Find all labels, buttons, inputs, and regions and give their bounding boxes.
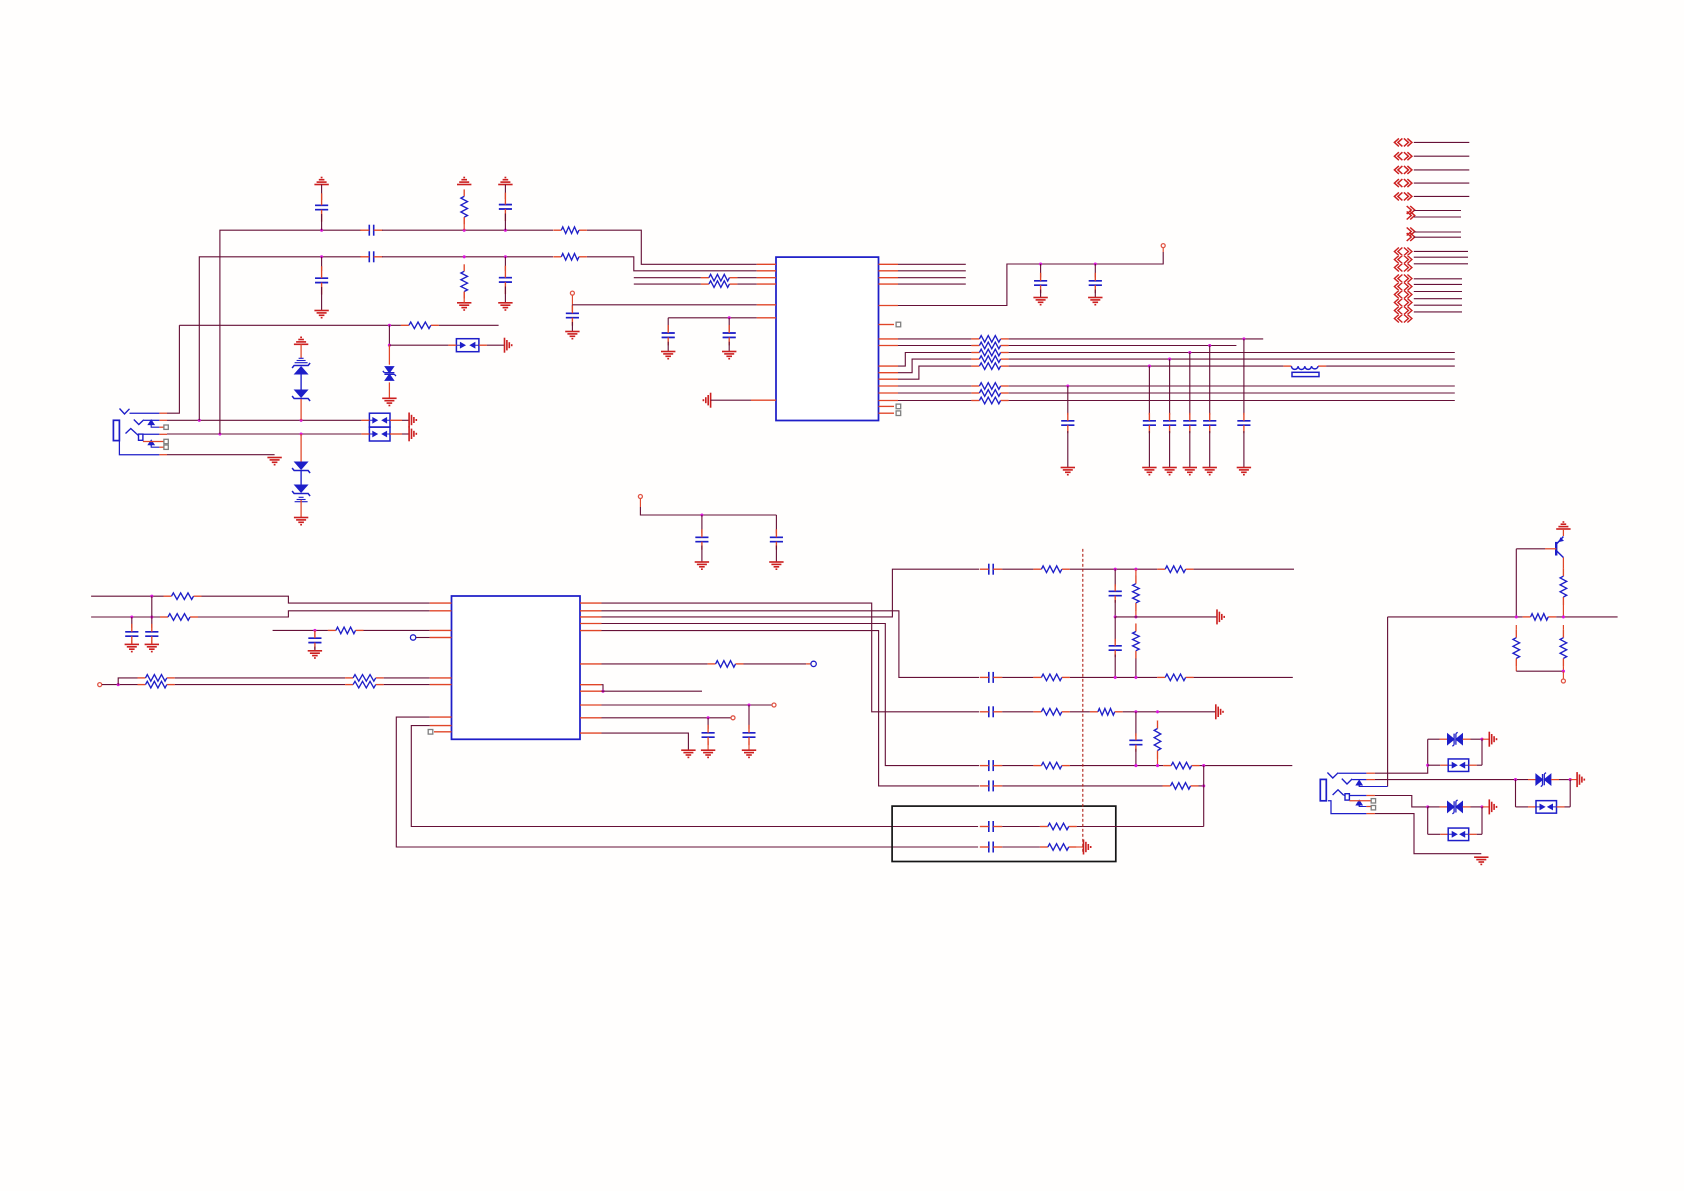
junction we (117, 683, 120, 686)
wire wa-wb riser (151, 596, 153, 617)
pin U2 l9 (434, 731, 452, 733)
wire C18 stub (701, 515, 703, 534)
wire C6 stub2 (504, 287, 506, 303)
capacitor C26 (1109, 584, 1122, 602)
pin D6 l (1528, 779, 1536, 781)
chassis ground G28 (1489, 732, 1496, 747)
junction w2-c (504, 255, 507, 258)
wire U2 gnd (602, 733, 689, 750)
junction j2tip (1426, 764, 1429, 767)
wire C10 stub (1040, 264, 1042, 278)
wire bus5 c (1326, 365, 1455, 367)
junction vp3 (700, 513, 703, 516)
wire F5 b (1199, 785, 1204, 787)
junction q1-b (1562, 615, 1565, 618)
pin U1 b6 (879, 385, 899, 387)
wire B2 b (1002, 846, 1040, 848)
wire C13 drop (1148, 366, 1150, 415)
resistor R22 (345, 681, 384, 688)
wire R3 stub (463, 217, 465, 230)
transistor Q1 (1556, 537, 1564, 558)
wire fb4 riser l (1427, 807, 1429, 834)
wire J2 sleeve net (1375, 796, 1428, 807)
resistor R18 (328, 627, 364, 634)
wire C9 stub (728, 318, 730, 331)
wire Q1 out b (1556, 616, 1617, 618)
capacitor C30 (1129, 733, 1142, 751)
pin U1 r4 (879, 283, 899, 285)
wire X9 stub 305.2 (1414, 304, 1462, 306)
junction vdd2 (707, 716, 710, 719)
wire vp3 rail (640, 507, 776, 515)
wire X8 stub 251.4 (1414, 250, 1468, 252)
connector X6b (1407, 212, 1415, 220)
junction j2s (1426, 805, 1429, 808)
capacitor C8 (662, 325, 675, 345)
pin U1 r8 (879, 412, 895, 414)
junction f2-b (1134, 676, 1137, 679)
wire G29 stub (1482, 806, 1489, 808)
resistor R12 (971, 363, 1008, 370)
junction w1-b (463, 229, 466, 232)
connector X8 (1394, 248, 1412, 272)
wire C11 stub (1094, 264, 1096, 278)
TVS diode D1 (292, 344, 310, 420)
pin U2 r7 (580, 684, 602, 686)
connector X5 (1394, 192, 1412, 200)
resistor R41 (1560, 630, 1567, 667)
wire F2 a (1002, 676, 1033, 678)
wire bus1 b (1009, 338, 1264, 340)
wire C14 drop (1169, 359, 1171, 415)
wire bus1 a (898, 338, 971, 340)
wire U1 in6 (668, 317, 757, 319)
pin U1 b5 (879, 378, 899, 380)
connector X7a (1407, 228, 1415, 236)
chassis ground G29 (1489, 799, 1496, 814)
pin D6 r (1551, 779, 1570, 781)
wire X9 stub 311.9 (1414, 311, 1462, 313)
wire U2 aux3 (602, 690, 703, 692)
wire wd riser (118, 678, 137, 685)
resistor R7 (701, 281, 738, 288)
junction bus3 (1188, 351, 1191, 354)
wire Q1 base net (1516, 548, 1545, 550)
pin FB4 r (1469, 833, 1482, 835)
pin U2 r11 (580, 732, 602, 734)
pin U1 4 (757, 283, 776, 285)
connector J1 tip contact (120, 409, 130, 415)
pin VP2 stub (1162, 248, 1164, 252)
wire C7 stub2 (571, 322, 573, 332)
wire F4 b (1070, 765, 1163, 767)
capacitor C15 (1183, 413, 1196, 433)
wire U2 vdd2 (602, 717, 731, 719)
capacitor C6 (499, 266, 512, 294)
resistor R6 (701, 274, 738, 281)
wire C16 drop2 (1209, 431, 1211, 468)
wire bus3 b (1009, 352, 1455, 354)
pin D5 l (1428, 806, 1448, 808)
power port VP4 (98, 683, 102, 687)
wire C22 stub (314, 630, 316, 636)
pin U1 r5 (879, 305, 899, 307)
wire WB b (198, 611, 430, 617)
connector J2 body (1320, 779, 1326, 800)
ground G-C17 (1237, 468, 1251, 475)
wire bead row (389, 344, 448, 346)
connector J1 audio jack body (113, 420, 119, 440)
ground G18 (125, 644, 139, 651)
junction wc (313, 629, 316, 632)
junction w2-b (463, 255, 466, 258)
test point TP2 (896, 404, 901, 409)
capacitor C33 (980, 821, 1002, 832)
wire C3 stub (321, 185, 323, 201)
wire X4 stub (1414, 182, 1470, 184)
power flag VCC C5 (498, 178, 512, 185)
power flag VCC D1 (294, 337, 308, 344)
pin U2 l8 (430, 725, 452, 727)
wire C26 stub2 (1114, 600, 1116, 617)
ground G27 (1474, 857, 1488, 864)
wire R27 link (1135, 624, 1137, 678)
junction in6 (728, 316, 731, 319)
wire C27 stub2 (1114, 655, 1116, 678)
wire F3 feed (602, 603, 980, 712)
wire C12 drop2 (1067, 431, 1069, 468)
junction f2-a (1114, 676, 1117, 679)
wire bus7 b (1009, 392, 1455, 394)
pin U2 l4 (430, 637, 452, 639)
junction w1-c (504, 229, 507, 232)
wire tip net (167, 325, 179, 413)
connector J1 sleeve contact (126, 429, 143, 441)
wire F2 feed (602, 611, 980, 678)
junction m-b (1134, 615, 1137, 618)
resistor R32 (1154, 721, 1161, 759)
wire bus6 b (1009, 385, 1455, 387)
power flag VCC Q1 (1556, 522, 1570, 529)
pin FB5 l (1516, 806, 1537, 808)
wire X9 stub 284.4 (1414, 283, 1462, 285)
wire WE b (175, 684, 345, 686)
wire C15 drop2 (1189, 431, 1191, 468)
connector J2 tip contact (1327, 773, 1338, 779)
ferrite bead FB2 (456, 339, 479, 352)
junction f3-a (1134, 710, 1137, 713)
pin FB1 left (361, 420, 369, 434)
junction bus4 (1168, 358, 1171, 361)
wire J2 ring net (1375, 779, 1528, 781)
pin D5 r (1463, 806, 1482, 808)
connector J2 switch 2 pad (1371, 806, 1375, 810)
wire C4 stub (321, 257, 323, 271)
wire C6 stub (504, 257, 506, 271)
pin U2 r10 (580, 717, 602, 719)
wire C10 stub2 (1040, 290, 1042, 298)
wire Q1 out (1388, 616, 1523, 618)
pin NC1 (416, 637, 451, 639)
ground G7 (498, 303, 512, 310)
pin U2 r8 (580, 690, 602, 692)
capacitor C13 (1143, 413, 1156, 433)
wire X6 stub1 (1414, 210, 1461, 212)
wire F4 feed (602, 624, 980, 766)
wire Q1 e stub (1562, 529, 1564, 536)
junction f5 (1202, 784, 1205, 787)
ground G14 (1033, 298, 1047, 305)
junction sleeve-tvs (300, 432, 303, 435)
resistor R28 (1033, 674, 1069, 681)
junction sleeve-riser (218, 432, 221, 435)
pin U2 r3 (580, 616, 602, 618)
junction j2ring (1514, 778, 1517, 781)
wire ring net row (167, 419, 361, 421)
wire C19 stub2 (775, 546, 777, 563)
wire W2 seg c (587, 257, 757, 271)
wire fb5 riser r (1569, 780, 1571, 807)
junction w3-a (388, 324, 391, 327)
resistor R34 (1163, 762, 1199, 769)
chassis ground G25 (1216, 704, 1223, 719)
resistor R35 (1163, 783, 1199, 790)
wire C17 drop (1243, 339, 1245, 415)
chassis ground G2 (409, 413, 416, 428)
resistor R20 (345, 675, 384, 682)
wire R4 stub (463, 292, 465, 303)
wire C3 stub2 (321, 214, 323, 230)
wire U2 vdd1 (602, 704, 772, 706)
connector J2 switch 1 (1357, 781, 1388, 787)
resistor R26 (1133, 576, 1140, 611)
resistor R1 (553, 227, 587, 234)
wire J2 sleeve c (1349, 795, 1375, 797)
wire bus7 a (898, 392, 971, 394)
port NC2 (811, 661, 816, 666)
wire fb3 riser (1481, 739, 1483, 765)
junction vdd-b (1094, 262, 1097, 265)
resistor R15 (971, 397, 1008, 404)
pin U1 r6 (879, 324, 895, 326)
wire W1 seg c (587, 230, 757, 264)
wire C30 stub2 (1135, 749, 1137, 766)
wire WE a (102, 684, 138, 686)
inductor L1 (1283, 366, 1326, 376)
wire C15 drop (1189, 353, 1191, 415)
ground G20 (308, 651, 322, 658)
capacitor C9 (723, 325, 736, 345)
wire G30 stub (1570, 779, 1577, 781)
resistor R27 (1133, 624, 1140, 659)
test point TP1 (896, 322, 901, 327)
junction f1-a (1114, 568, 1117, 571)
pin D4 r (1463, 738, 1482, 740)
connector J1 switch 2 (149, 440, 165, 447)
capacitor C24 (702, 725, 715, 745)
wire R40 link (1515, 625, 1517, 671)
capacitor C2 (360, 251, 382, 262)
wire C16 drop (1209, 346, 1211, 415)
wire C23 stub (748, 705, 750, 729)
power port VP2 (1161, 244, 1165, 248)
junction wa (150, 595, 153, 598)
junction w2-a (320, 255, 323, 258)
connector J2 ring 2 stub (1349, 800, 1371, 802)
wire U1 agnd (711, 399, 751, 401)
wire F5 feed (602, 631, 980, 786)
wire C30 stub (1135, 712, 1137, 737)
connector J2 ring 2 pad (1371, 799, 1375, 803)
capacitor C31 (980, 760, 1002, 771)
wire WD c (384, 677, 430, 679)
wire J2 tip (1338, 772, 1375, 774)
IC U2 (452, 596, 581, 739)
wire F1 c (1194, 568, 1294, 570)
wire C13 drop2 (1148, 431, 1150, 468)
wire fb5 riser l (1515, 780, 1517, 807)
ground G22 (701, 750, 715, 757)
ground G21 (742, 750, 756, 757)
junction bus6 (1066, 384, 1069, 387)
resistor R14 (971, 390, 1008, 397)
junction f4-a (1134, 764, 1137, 767)
pin U2 l2 (430, 610, 452, 612)
pin Q1 base (1545, 548, 1556, 550)
pin U1 1 (757, 263, 776, 265)
wire bus8 b (1009, 400, 1455, 402)
wire J2 shield net (1375, 814, 1481, 854)
ground G-C16 (1203, 468, 1217, 475)
junction bead-row (388, 344, 391, 347)
wire X2 stub (1414, 155, 1470, 157)
wire C5 stub2 (504, 214, 506, 231)
wire bus2 a (898, 345, 971, 347)
pin FB3 l (1428, 764, 1449, 766)
pin FB1 right (390, 420, 409, 434)
capacitor C34 (980, 842, 1002, 853)
pin U1 3 (757, 277, 776, 279)
resistor R17 (160, 614, 198, 621)
wire X5 stub (1414, 195, 1470, 197)
pin U2 r9 (580, 704, 602, 706)
capacitor C11 (1089, 273, 1102, 293)
pin FB4 l (1428, 833, 1449, 835)
wire W2 seg b (382, 256, 553, 258)
junction d6 (1569, 778, 1572, 781)
wire VP7 stub (1562, 671, 1564, 679)
wire B1 c (1077, 826, 1204, 828)
wire F1 feed (602, 569, 980, 617)
resistor R8 (971, 336, 1008, 343)
pin U2 r4 (580, 623, 602, 625)
ground G1 (267, 458, 281, 465)
wire C19 stub (775, 515, 777, 534)
wire G28 stub (1482, 738, 1489, 740)
wire C4 stub2 (321, 287, 323, 311)
TVS diode D3 (383, 367, 396, 381)
wire bus6 a (898, 385, 971, 387)
wire U1 out2 (898, 270, 966, 272)
ground G6 (457, 303, 471, 310)
pin U2 l3 (430, 629, 452, 631)
capacitor C29 (980, 706, 1002, 717)
pin U2 r1 (580, 602, 602, 604)
wire F3 b (1123, 711, 1216, 713)
pin U1 b3 (879, 365, 899, 367)
wire X3 stub (1414, 169, 1470, 171)
pin U1 5 (757, 304, 776, 306)
resistor R9 (971, 342, 1008, 349)
wire C12 drop (1067, 386, 1069, 415)
wire bus4 b (1009, 358, 1455, 360)
junction f4-c (1202, 764, 1205, 767)
wire WE c (384, 684, 430, 686)
wire J2 tip net (1375, 739, 1428, 773)
chassis ground G8 (505, 338, 512, 353)
wire loop1 (396, 717, 978, 847)
wire bus5 a (898, 366, 971, 379)
ground G19 (145, 644, 159, 651)
junction q1-c (1562, 670, 1565, 673)
wire F2 b (1070, 676, 1157, 678)
pin U2 l6 (430, 684, 452, 686)
power port VP5 (772, 703, 776, 707)
wire C26 stub (1114, 569, 1116, 586)
capacitor C4 (315, 266, 328, 294)
junction bus5 (1148, 365, 1151, 368)
resistor R39 (1523, 614, 1557, 621)
wire U1 out1 (898, 263, 966, 265)
TVS diode D5 (1447, 800, 1462, 814)
capacitor C14 (1163, 413, 1176, 433)
wire W1 seg a (220, 230, 361, 434)
resistor R33 (1033, 762, 1069, 769)
wire C14 drop2 (1169, 431, 1171, 468)
resistor R10 (971, 349, 1008, 356)
ferrite bead FB5 (1536, 801, 1557, 814)
connector J1 ring 2 stub (143, 441, 164, 443)
wire U2 aux2 (602, 685, 604, 692)
wire X6 stub2 (1414, 216, 1461, 218)
ground G-C14 (1162, 468, 1176, 475)
junction w1-a (320, 229, 323, 232)
test point TP3 (896, 411, 901, 416)
capacitor C21 (145, 624, 158, 644)
pin NC2 (806, 663, 811, 665)
wire Q1 base riser (1515, 549, 1517, 617)
pin U1 7 (751, 399, 776, 401)
wire F5 a (1002, 785, 1162, 787)
wire Q1 c stub (1562, 558, 1564, 569)
pin U2 r2 (580, 610, 602, 612)
ground G12 (722, 352, 736, 359)
junction d5 (1480, 805, 1483, 808)
ground G4 (294, 518, 308, 525)
wire fb4 riser r (1481, 807, 1483, 834)
ground G5 (314, 311, 328, 318)
resistor R2 (553, 254, 587, 261)
wire X7 stub1 (1414, 231, 1461, 233)
wire WA b (202, 596, 430, 603)
resistor R36 (1040, 823, 1077, 830)
separator dashed line (1082, 549, 1084, 854)
wire WB a (91, 616, 160, 618)
ferrite bead FB4 (1448, 828, 1469, 841)
capacitor C1 (360, 225, 382, 236)
wire link F4-B1 (1203, 766, 1205, 827)
pin U2 r6 (580, 663, 602, 665)
